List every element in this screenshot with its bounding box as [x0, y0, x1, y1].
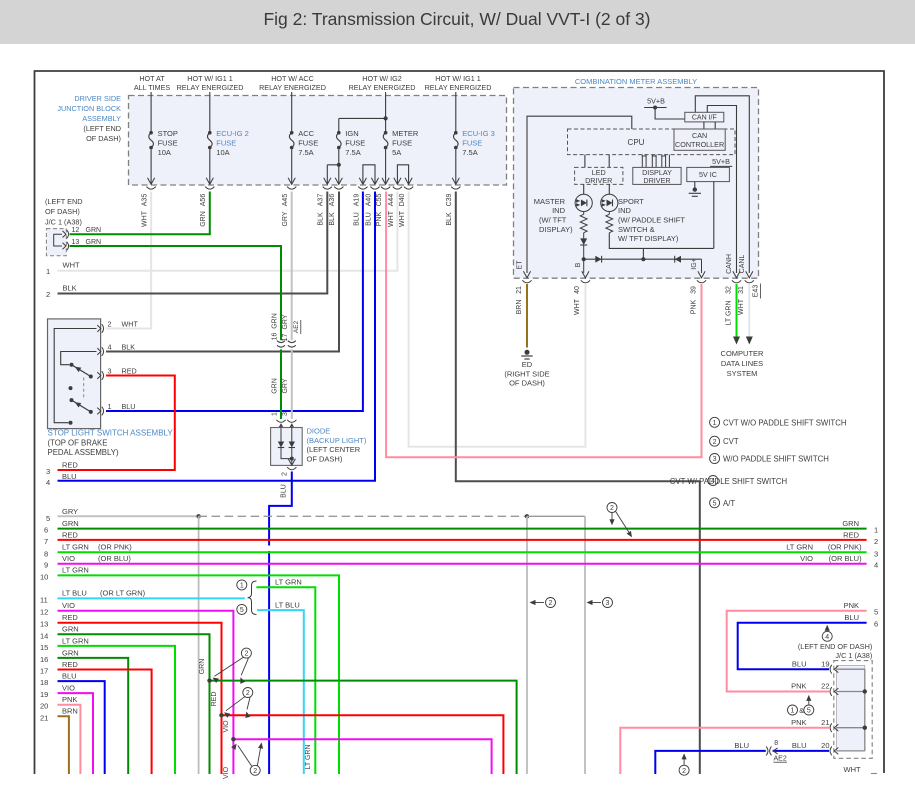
svg-text:BLU: BLU: [122, 402, 136, 411]
svg-text:(OR BLU): (OR BLU): [98, 554, 131, 563]
svg-text:3: 3: [282, 412, 289, 416]
svg-text:DISPLAY): DISPLAY): [539, 225, 573, 234]
combination meter assembly box: [514, 88, 759, 279]
row 5 solid extension: [527, 515, 585, 517]
ground 5V IC: [694, 182, 696, 188]
svg-text:CVT: CVT: [723, 437, 739, 446]
svg-text:FUSE: FUSE: [298, 139, 318, 148]
wire PNK pin21: [620, 728, 829, 774]
switch lever lower: [72, 400, 91, 412]
fuse ECU-IG 3 FUSE 7.5A: [454, 131, 458, 135]
wire WHT A44 to row 1: [58, 192, 398, 271]
J/C left connector box: [46, 229, 66, 256]
svg-text:5: 5: [807, 708, 811, 715]
svg-text:A36: A36: [329, 194, 336, 207]
legend 3 W/O PADDLE: [710, 454, 720, 464]
stop light switch box: [48, 319, 101, 429]
wire HOT W/IG1-1 right feed: [455, 92, 457, 131]
svg-text:WHT: WHT: [63, 261, 80, 270]
wire BRN ET: [526, 284, 528, 348]
svg-text:(OR BLU): (OR BLU): [829, 554, 862, 563]
brace row11: [248, 581, 257, 615]
svg-text:3: 3: [108, 367, 112, 376]
svg-text:WHT: WHT: [388, 210, 395, 227]
wire LT GRN option1: [256, 587, 315, 774]
svg-text:2: 2: [713, 439, 717, 446]
fuse STOP FUSE 10A: [149, 131, 153, 135]
meter pin ET connector: [523, 271, 530, 278]
legend circle 5 row11: [237, 604, 247, 614]
J/C A38 internal stub y691.5: [837, 691, 865, 693]
svg-text:16: 16: [271, 333, 278, 341]
svg-text:LT GRN: LT GRN: [62, 543, 89, 552]
box 5V IC: [687, 167, 730, 181]
svg-text:BLU: BLU: [62, 672, 77, 681]
svg-text:8: 8: [44, 549, 48, 558]
wires CPU to LED DRIVER: [585, 155, 609, 168]
svg-text:BLU: BLU: [792, 741, 807, 750]
pin A45 connector: [288, 178, 295, 185]
LED sport indicator: [601, 194, 618, 211]
wire STOP fuse output: [150, 149, 152, 184]
svg-text:2: 2: [610, 505, 614, 512]
svg-text:GRN: GRN: [199, 659, 206, 675]
svg-text:FUSE: FUSE: [392, 139, 412, 148]
svg-text:(LEFT END: (LEFT END: [45, 197, 83, 206]
svg-text:19: 19: [40, 690, 48, 699]
box CPU: [568, 129, 736, 155]
box DISPLAY DRIVER: [633, 167, 681, 184]
note 3 arrow left: [588, 602, 601, 604]
note 2 row13: [243, 688, 253, 698]
svg-text:PNK: PNK: [791, 682, 806, 691]
svg-text:PNK: PNK: [376, 211, 383, 226]
svg-text:BLU: BLU: [844, 613, 859, 622]
svg-text:31: 31: [738, 286, 745, 294]
svg-text:1: 1: [108, 402, 112, 411]
diode internal join: [281, 448, 292, 465]
svg-text:WHT: WHT: [844, 765, 861, 774]
diode pin2 connector: [288, 459, 295, 466]
svg-text:40: 40: [574, 286, 581, 294]
svg-text:RED: RED: [211, 692, 218, 707]
svg-text:DRIVER: DRIVER: [643, 176, 670, 185]
svg-text:HOT W/ IG1 1: HOT W/ IG1 1: [187, 74, 232, 83]
svg-text:A56: A56: [200, 194, 207, 207]
svg-text:IG+: IG+: [691, 258, 698, 269]
junction dot 5V+B: [653, 106, 657, 110]
wire BLU diode pin2: [269, 472, 292, 546]
svg-text:OF DASH): OF DASH): [86, 134, 121, 143]
svg-text:BLK: BLK: [63, 284, 77, 293]
wire GRN lower to diode pin1: [280, 349, 282, 419]
svg-text:OF DASH): OF DASH): [509, 379, 545, 388]
svg-text:2: 2: [682, 768, 686, 775]
switch pin 3 connector: [97, 372, 101, 379]
switch lever upper: [72, 365, 91, 377]
pin A44 connector: [394, 178, 401, 185]
wire WHT D40 to meter B: [409, 192, 586, 447]
svg-text:1: 1: [874, 525, 878, 534]
svg-text:Fig 2: Transmission Circuit, W: Fig 2: Transmission Circuit, W/ Dual VVT…: [263, 9, 650, 29]
svg-text:(LEFT END: (LEFT END: [83, 124, 121, 133]
junction dot bus left: [582, 257, 586, 261]
wire BLU pin20 right: [773, 750, 829, 752]
wire GRN pin13 to diode: [70, 246, 282, 340]
svg-text:12: 12: [72, 227, 80, 234]
note 2 row12: [250, 765, 260, 775]
svg-text:10A: 10A: [158, 148, 171, 157]
svg-text:1: 1: [46, 267, 50, 276]
svg-text:IND: IND: [552, 206, 566, 215]
svg-text:RELAY ENERGIZED: RELAY ENERGIZED: [177, 83, 244, 92]
note 2 near dashed: [607, 503, 617, 513]
wire WHT A35 to stop light switch pin 2: [106, 192, 151, 329]
svg-text:BLU: BLU: [281, 484, 288, 498]
J/C A38 box: [834, 661, 872, 759]
svg-text:17: 17: [282, 334, 289, 342]
legend circle 1 row11: [237, 580, 247, 590]
svg-text:RED: RED: [62, 613, 78, 622]
J/C A38 internal stub y750.9: [837, 750, 865, 752]
svg-text:J/C 1 (A38): J/C 1 (A38): [45, 218, 82, 227]
box CAN I/F: [685, 112, 724, 122]
svg-text:5: 5: [240, 607, 244, 614]
svg-text:FUSE: FUSE: [216, 139, 236, 148]
svg-text:8: 8: [774, 740, 778, 747]
wire GRN branch right: [210, 681, 517, 774]
junction dot bus mid: [641, 257, 645, 261]
svg-text:(LEFT END OF DASH): (LEFT END OF DASH): [798, 642, 872, 651]
svg-text:BLK: BLK: [446, 212, 453, 226]
svg-text:(W/ TFT: (W/ TFT: [539, 216, 567, 225]
wire RED branch right: [222, 715, 504, 774]
svg-text:BLU: BLU: [62, 472, 77, 481]
inline connector 16: [277, 341, 285, 343]
svg-text:4: 4: [825, 634, 829, 641]
wire option drop 3: [584, 516, 586, 774]
switch contact dot common upper: [70, 363, 74, 367]
svg-text:GRN: GRN: [62, 648, 79, 657]
svg-text:ASSEMBLY: ASSEMBLY: [82, 114, 121, 123]
svg-text:4: 4: [711, 478, 715, 485]
legend 2 CVT: [710, 436, 720, 446]
svg-text:A19: A19: [353, 194, 360, 207]
svg-text:WHT: WHT: [399, 210, 406, 227]
svg-text:IGN: IGN: [345, 129, 358, 138]
pin A37 connector: [324, 178, 331, 185]
svg-text:A44: A44: [388, 194, 395, 207]
svg-text:2: 2: [108, 320, 112, 329]
svg-text:1: 1: [240, 583, 244, 590]
svg-text:VIO: VIO: [62, 601, 75, 610]
svg-text:2: 2: [874, 537, 878, 546]
svg-text:HOT W/ IG1 1: HOT W/ IG1 1: [435, 74, 480, 83]
junction dot RED: [219, 713, 223, 717]
svg-text:21: 21: [40, 713, 48, 722]
wire IGN fuse output split: [327, 149, 339, 184]
comb CPU to DISPLAY DRIVER: [641, 155, 643, 168]
wires LED DRIVER to LEDs: [584, 184, 610, 194]
svg-text:VIO: VIO: [62, 554, 75, 563]
svg-text:JUNCTION BLOCK: JUNCTION BLOCK: [57, 104, 121, 113]
svg-text:LT BLU: LT BLU: [275, 600, 300, 609]
svg-text:D40: D40: [399, 193, 406, 206]
svg-text:C39: C39: [446, 193, 453, 206]
note 4 annotation: [822, 631, 832, 641]
svg-text:WHT: WHT: [574, 298, 581, 315]
wire HOT W/IG2 feed: [385, 92, 387, 131]
switch contact dot pin3: [89, 375, 93, 379]
svg-text:B: B: [575, 262, 582, 267]
svg-text:FUSE: FUSE: [462, 139, 482, 148]
svg-text:17: 17: [40, 667, 48, 676]
svg-text:GRN: GRN: [86, 239, 102, 246]
svg-text:ED: ED: [522, 360, 533, 369]
svg-text:CVT W/O PADDLE SHIFT SWITCH: CVT W/O PADDLE SHIFT SWITCH: [723, 418, 846, 427]
svg-text:LT GRN: LT GRN: [786, 543, 813, 552]
row 5 dashed extension: [199, 515, 527, 517]
svg-text:20: 20: [40, 702, 48, 711]
wire METER fuse output: [385, 149, 387, 184]
svg-text:RELAY ENERGIZED: RELAY ENERGIZED: [259, 83, 326, 92]
wire CANL from CAN I/F: [695, 96, 749, 273]
J/C A38 pin 19 connector: [830, 665, 832, 674]
svg-text:5: 5: [713, 500, 717, 507]
fuse ACC FUSE 7.5A: [290, 131, 294, 135]
pin A36 connector: [335, 178, 342, 185]
wire ET to CPU: [527, 116, 632, 273]
svg-text:CANL: CANL: [739, 255, 746, 274]
wire BLU diode continued: [268, 551, 270, 774]
junction dot IG2 branch: [384, 116, 388, 120]
LED master indicator: [575, 194, 592, 211]
wire ECU-IG2 fuse output: [209, 149, 211, 184]
pin A56 connector: [206, 178, 213, 185]
svg-text:BLK: BLK: [329, 212, 336, 226]
wire GRY A45 upper: [291, 192, 293, 341]
svg-text:GRN: GRN: [271, 378, 278, 394]
wire LT BLU option5: [257, 610, 304, 774]
svg-text:GRN: GRN: [62, 519, 79, 528]
svg-text:6: 6: [874, 619, 878, 628]
pin A35 connector: [148, 178, 155, 185]
J/C left pin 12 symbol: [63, 231, 67, 238]
switch pin 4 connector: [97, 348, 101, 355]
meter pin B connector: [582, 271, 589, 278]
driver side junction block box: [129, 96, 507, 186]
svg-text:PNK: PNK: [791, 718, 806, 727]
stub wire bottom right: [871, 773, 877, 775]
diode element left: [278, 442, 284, 448]
svg-text:2: 2: [253, 768, 257, 775]
J/C A38 internal bus: [864, 669, 866, 751]
switch internal pin4 wire: [61, 352, 97, 365]
svg-text:11: 11: [40, 595, 48, 604]
svg-text:RELAY ENERGIZED: RELAY ENERGIZED: [349, 83, 416, 92]
svg-text:32: 32: [725, 286, 732, 294]
svg-text:OF DASH): OF DASH): [307, 454, 343, 463]
legend 5 A/T: [710, 498, 720, 508]
pin C39 connector: [452, 178, 459, 185]
svg-text:A/T: A/T: [723, 499, 735, 508]
svg-text:SYSTEM: SYSTEM: [727, 369, 758, 378]
wire A19-A40 internal bracket: [363, 165, 375, 184]
diode pin3 connector: [287, 420, 296, 423]
svg-text:GRN: GRN: [62, 625, 79, 634]
svg-text:GRY: GRY: [282, 314, 289, 329]
svg-text:CONTROLLER: CONTROLLER: [675, 140, 724, 149]
svg-text:3: 3: [874, 549, 878, 558]
svg-text:CAN: CAN: [692, 131, 707, 140]
svg-text:2: 2: [281, 472, 288, 476]
pin A19 connector: [359, 178, 366, 185]
svg-text:CPU: CPU: [628, 138, 645, 147]
svg-text:PNK: PNK: [62, 695, 77, 704]
ground ED: [525, 350, 530, 355]
junction dot IGN split: [337, 163, 341, 167]
svg-text:CANH: CANH: [726, 254, 733, 274]
svg-text:WHT: WHT: [122, 320, 139, 329]
resistor sport: [608, 212, 610, 215]
wire sport to 5V IC line: [609, 233, 714, 249]
svg-text:5: 5: [874, 607, 878, 616]
note 2 pin20: [679, 765, 689, 775]
svg-text:ACC: ACC: [298, 129, 314, 138]
J/C left internal bridge: [54, 234, 62, 246]
diode backup light box: [271, 428, 303, 466]
svg-text:CVT W/ PADDLE SHIFT SWITCH: CVT W/ PADDLE SHIFT SWITCH: [670, 477, 787, 486]
svg-text:J/C 1 (A38): J/C 1 (A38): [835, 651, 872, 660]
wire GRN A56 to J/C pin 12: [70, 192, 210, 235]
svg-text:BLK: BLK: [122, 343, 136, 352]
svg-text:21: 21: [516, 286, 523, 294]
J/C A38 pin 22 connector: [830, 687, 832, 696]
svg-text:2: 2: [549, 600, 553, 607]
box CAN CONTROLLER: [674, 129, 725, 150]
svg-text:22: 22: [821, 682, 829, 691]
wire BLK C39 option leg: [456, 192, 700, 775]
switch contact dot pin1: [89, 410, 93, 414]
J/C A38 inner fill: [837, 666, 865, 751]
J/C A38 bus dot 22: [863, 689, 867, 693]
svg-text:BLU: BLU: [734, 741, 749, 750]
switch contact dot floating: [69, 386, 73, 390]
legend 1 CVT W/O PADDLE: [710, 417, 720, 427]
svg-text:VIO: VIO: [62, 684, 75, 693]
J/C left pin 13 symbol: [63, 243, 67, 250]
wire 5V IC to sport line: [713, 182, 715, 249]
svg-text:MASTER: MASTER: [534, 197, 566, 206]
note 2 row14: [241, 648, 251, 658]
svg-text:RED: RED: [62, 660, 78, 669]
junction dot row5: [196, 514, 200, 518]
svg-text:VIO: VIO: [223, 720, 230, 733]
svg-text:VIO: VIO: [800, 554, 813, 563]
J/C A38 pin 20 connector: [830, 747, 832, 756]
meter pin CANH connector: [733, 271, 740, 278]
svg-text:WHT: WHT: [738, 298, 745, 315]
svg-text:(OR PNK): (OR PNK): [98, 543, 132, 552]
J/C A38 internal stub y727.7: [837, 727, 865, 729]
diode element right: [289, 442, 295, 448]
svg-text:LT GRN: LT GRN: [305, 744, 312, 769]
diode master ind: [583, 233, 585, 239]
svg-text:PNK: PNK: [844, 601, 859, 610]
svg-text:BRN: BRN: [62, 707, 78, 716]
J/C A38 bus dot 21: [863, 726, 867, 730]
wire HOT AT ALL TIMES feed: [150, 92, 152, 131]
wire BLK A37 to row 2: [58, 192, 328, 294]
svg-text:BRN: BRN: [516, 300, 523, 315]
wire VIO branch right: [233, 739, 491, 774]
svg-text:GRY: GRY: [282, 378, 289, 393]
svg-text:FUSE: FUSE: [158, 139, 178, 148]
svg-text:ECU-IG 2: ECU-IG 2: [216, 129, 249, 138]
svg-text:W/ TFT DISPLAY): W/ TFT DISPLAY): [618, 234, 679, 243]
svg-text:SWITCH &: SWITCH &: [618, 225, 655, 234]
svg-text:1: 1: [271, 412, 278, 416]
svg-text:(RIGHT SIDE: (RIGHT SIDE: [504, 369, 549, 378]
diode internal stems: [281, 425, 292, 442]
switch pin 1 connector: [97, 408, 101, 415]
pin D40 connector: [405, 178, 412, 185]
svg-text:3: 3: [46, 467, 50, 476]
note 2 arrow left: [531, 602, 544, 604]
svg-text:4: 4: [874, 561, 878, 570]
svg-text:19: 19: [821, 659, 829, 668]
svg-text:2: 2: [46, 290, 50, 299]
svg-text:DATA LINES: DATA LINES: [721, 359, 763, 368]
svg-text:BLU: BLU: [792, 659, 807, 668]
svg-text:(OR PNK): (OR PNK): [828, 543, 862, 552]
wire IG+ stub: [701, 259, 703, 273]
svg-text:GRN: GRN: [271, 313, 278, 329]
svg-text:HOT AT: HOT AT: [139, 74, 165, 83]
svg-text:14: 14: [40, 631, 48, 640]
wire WHT CANL: [748, 284, 750, 337]
inline connector 17: [288, 341, 296, 343]
wires CAN I/F to CAN CONTROLLER: [704, 122, 715, 129]
meter pin IG+ connector: [698, 271, 705, 278]
svg-text:GRY: GRY: [282, 211, 289, 226]
arrow CANH down: [733, 337, 740, 345]
svg-text:(OR LT GRN): (OR LT GRN): [100, 589, 146, 598]
svg-text:AE2: AE2: [293, 320, 300, 333]
svg-text:GRN: GRN: [200, 211, 207, 227]
inline connector 8 AE2: [766, 746, 768, 755]
svg-text:SPORT: SPORT: [618, 197, 644, 206]
pin C55 connector: [382, 178, 389, 185]
wire BLU A19 to switch pin 1: [106, 192, 363, 412]
wire LT GRN CANH: [736, 284, 738, 337]
svg-text:WHT: WHT: [142, 210, 149, 227]
svg-text:A45: A45: [282, 194, 289, 207]
diode bus right-pointing: [595, 256, 601, 263]
svg-text:RELAY ENERGIZED: RELAY ENERGIZED: [425, 83, 492, 92]
svg-text:ET: ET: [517, 260, 524, 270]
svg-text:GRY: GRY: [62, 507, 78, 516]
svg-text:LT GRN: LT GRN: [275, 578, 302, 587]
junction dot row5 mid: [525, 514, 529, 518]
wire IGN branch: [339, 118, 386, 131]
svg-text:5V+B: 5V+B: [647, 97, 665, 106]
svg-text:E43: E43: [753, 285, 760, 298]
svg-text:RED: RED: [62, 461, 78, 470]
wire tee to bus: [642, 248, 644, 259]
svg-text:2: 2: [246, 690, 250, 697]
svg-text:7.5A: 7.5A: [298, 148, 313, 157]
